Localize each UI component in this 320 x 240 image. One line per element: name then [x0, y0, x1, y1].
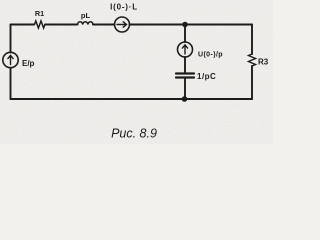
wire right branch upper — [251, 25, 253, 55]
svg-text:I(0-)·L: I(0-)·L — [110, 3, 138, 12]
svg-text:R1: R1 — [35, 9, 44, 18]
wire middle branch upper — [184, 25, 186, 43]
inductor pL — [78, 22, 94, 25]
EMF source E/p arrow — [8, 55, 13, 64]
EMF source U(0-)/p circle — [178, 42, 193, 57]
EMF source U(0-)/p arrow — [182, 45, 187, 54]
wire top rail left segment — [11, 24, 35, 26]
wire left branch upper — [10, 25, 12, 53]
EMF source I(0-)L circle — [115, 17, 130, 32]
capacitor 1/pC plates — [176, 74, 194, 78]
svg-text:E/p: E/p — [22, 59, 35, 68]
svg-text:1/pC: 1/pC — [197, 72, 216, 81]
EMF source I(0-)L arrow — [117, 22, 127, 27]
wire bottom rail — [11, 98, 253, 100]
wire top rail segment L to source — [93, 24, 115, 26]
svg-text:Рис. 8.9: Рис. 8.9 — [111, 127, 157, 141]
wire top rail segment R1 to L — [45, 24, 78, 26]
svg-text:pL: pL — [81, 11, 91, 20]
node junction top — [182, 22, 188, 28]
resistor R1 — [35, 21, 45, 28]
wire right branch lower — [251, 66, 253, 99]
wire top rail right segment — [130, 24, 253, 26]
svg-text:U(0-)/p: U(0-)/p — [198, 52, 223, 59]
svg-text:R3: R3 — [258, 58, 269, 67]
wire middle branch below capacitor — [184, 79, 186, 100]
node junction bottom — [182, 96, 188, 102]
wire left branch lower — [10, 68, 12, 99]
wire middle branch between source and capacitor — [184, 57, 186, 73]
EMF source E/p circle — [3, 52, 18, 67]
resistor R3 — [249, 54, 256, 66]
